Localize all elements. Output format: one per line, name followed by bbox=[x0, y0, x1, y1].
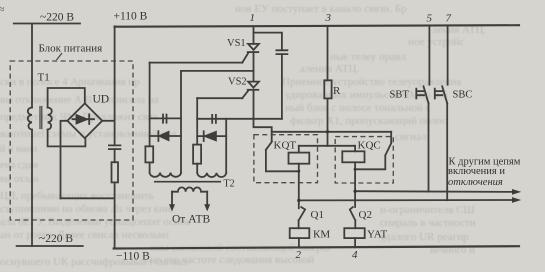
gate circuit 1 left rail bbox=[149, 63, 151, 147]
svg-text:От АТВ: От АТВ bbox=[172, 214, 211, 226]
wire VS1 cathode return bbox=[181, 70, 254, 72]
svg-text:вы охлан: вы охлан bbox=[0, 174, 39, 185]
bridge rectifier UD diamond bbox=[67, 103, 102, 138]
contact KQC bbox=[355, 132, 391, 170]
junction dot line3/contact bus bbox=[326, 130, 329, 133]
svg-text:5: 5 bbox=[427, 13, 433, 25]
svg-text:≈: ≈ bbox=[0, 2, 5, 16]
wire main drop to contacts bbox=[254, 119, 272, 142]
wire ~220V top stub bbox=[14, 23, 80, 25]
dashed box power supply bbox=[10, 61, 133, 220]
svg-text:4: 4 bbox=[352, 249, 358, 261]
svg-text:SBC: SBC bbox=[453, 90, 473, 101]
svg-text:аления АТЦ.: аления АТЦ. bbox=[300, 63, 360, 75]
wire VS2 gate bbox=[197, 97, 242, 99]
node line 5 bbox=[428, 26, 430, 84]
svg-text:KQC: KQC bbox=[358, 140, 381, 152]
node line 3 bbox=[327, 26, 329, 80]
wire secondary bottom to bridge bbox=[48, 130, 86, 147]
svg-text:~220 В: ~220 В bbox=[40, 12, 74, 24]
wire line1 below VS2 bbox=[253, 90, 255, 119]
thyristor VS2 bbox=[248, 82, 259, 88]
junction dot arrow2 bbox=[297, 199, 300, 202]
svg-text:вы отключение А В. В присела н: вы отключение А В. В присела на bbox=[0, 94, 159, 106]
svg-text:ан от ponto. Далее свисал неск: ан от ponto. Далее свисал несколько bbox=[0, 229, 169, 241]
wire bridge plus output bbox=[102, 120, 114, 122]
button SBT bbox=[416, 86, 428, 103]
resistor R bbox=[324, 80, 331, 98]
gate circuit 2 diode wire bbox=[197, 135, 226, 137]
arrowhead other circuits 2 bbox=[512, 197, 521, 203]
top +110V bus bbox=[115, 25, 519, 27]
wire line1 VS1-VS2 bbox=[253, 52, 255, 82]
svg-text:удалогo UR реагир: удалогo UR реагир bbox=[380, 231, 469, 243]
wire coil feed bbox=[299, 145, 355, 147]
svg-text:ступившими на обнова als через: ступившими на обнова als через книг bbox=[0, 203, 176, 215]
dashed box KQC bbox=[335, 137, 393, 183]
wire line1 top jog to capacitor bbox=[254, 33, 282, 51]
svg-text:Т2: Т2 bbox=[224, 179, 235, 190]
wire to other circuits 1 bbox=[355, 190, 513, 193]
contact KQT bbox=[266, 142, 299, 172]
contact Q2 bbox=[350, 207, 355, 228]
svg-text:1: 1 bbox=[250, 12, 256, 24]
T2 secondary winding 2 bbox=[197, 173, 226, 177]
wire to other circuits 2 bbox=[299, 199, 513, 201]
gate circuit 2 left rail bbox=[196, 98, 198, 144]
svg-text:Т1: Т1 bbox=[38, 72, 50, 84]
svg-text:Блок питания: Блок питания bbox=[39, 43, 103, 55]
svg-text:3: 3 bbox=[325, 12, 332, 24]
gate circuit 1 top wire bbox=[150, 117, 181, 119]
wire +110 drop / filter chain bbox=[114, 26, 116, 145]
svg-text:ные телеу правл: ные телеу правл bbox=[330, 51, 406, 63]
svg-text:VS1: VS1 bbox=[227, 38, 246, 49]
transformer T1 primary winding bbox=[28, 108, 32, 130]
arrowhead ATV left bbox=[169, 204, 175, 211]
node line 1 bbox=[253, 26, 255, 44]
svg-text:фильтр Х1, пропускающий полос: фильтр Х1, пропускающий полос bbox=[290, 115, 447, 127]
gate circuit 1 diode wire bbox=[150, 135, 181, 137]
wire secondary top to bridge bbox=[48, 88, 85, 108]
svg-text:Приемное устройство телеуправл: Приемное устройство телеуправления bbox=[282, 76, 461, 88]
gate circuit 2 right rail bbox=[225, 119, 227, 173]
svg-text:оснувшего UК рассчифровывает с: оснувшего UК рассчифровывает сигнал bbox=[0, 256, 188, 268]
svg-text:ала 6ЕГУ. Выделении уснащcente: ала 6ЕГУ. Выделении уснащcenter основ bbox=[0, 216, 191, 228]
svg-text:VS2: VS2 bbox=[228, 76, 247, 87]
bridge inner diode bbox=[73, 118, 95, 120]
wire T1 primary to bottom bbox=[31, 130, 33, 246]
svg-text:нов ЕУ поступает в канало связ: нов ЕУ поступает в канало связи. Бр bbox=[235, 3, 407, 15]
T2 core bbox=[155, 181, 220, 183]
svg-text:сигнал: сигнал bbox=[395, 131, 427, 143]
wire contact top bus bbox=[272, 131, 392, 133]
svg-text:ное устройс: ное устройс bbox=[408, 36, 464, 48]
T1 core bbox=[40, 107, 42, 129]
resistor bleeder bbox=[112, 162, 119, 182]
svg-text:спираль в частности: спираль в частности bbox=[380, 217, 476, 229]
diode VD2 bbox=[204, 132, 216, 141]
svg-text:YAT: YAT bbox=[367, 229, 387, 241]
capacitor C1 bbox=[163, 115, 167, 123]
svg-text:ный блок с полосе тональной с: ный блок с полосе тональной с bbox=[285, 102, 431, 114]
diode VD1 bbox=[159, 131, 169, 140]
bottom -110V bus bbox=[114, 246, 519, 248]
trip coil YAT bbox=[344, 228, 364, 238]
relay coil KQC bbox=[354, 146, 356, 152]
wire ~220V bottom stub bbox=[17, 245, 83, 247]
arrowhead ATV right bbox=[204, 204, 210, 211]
T2 secondary winding 1 bbox=[150, 173, 181, 177]
junction dot KQC contact bbox=[354, 168, 357, 171]
wire gate circuit2 top bbox=[197, 118, 282, 120]
wire bridge minus output bbox=[61, 121, 68, 199]
svg-text:отключения: отключения bbox=[448, 177, 503, 188]
relay coil KQT bbox=[298, 146, 300, 153]
svg-text:7: 7 bbox=[446, 13, 452, 25]
capacitor commutation bbox=[276, 50, 287, 54]
svg-text:R: R bbox=[333, 85, 341, 97]
svg-text:~220 В: ~220 В bbox=[39, 233, 73, 245]
arrowhead other circuits 1 bbox=[512, 189, 521, 195]
node line 7 bbox=[447, 26, 449, 84]
svg-text:2: 2 bbox=[296, 249, 302, 261]
gate circuit 1 right rail bbox=[180, 71, 182, 173]
contactor coil KM bbox=[290, 228, 310, 238]
capacitor filter bbox=[109, 145, 121, 149]
svg-text:ски в полосе 4 Арназвания пр: ски в полосе 4 Арназвания пр bbox=[0, 76, 140, 88]
svg-text:KQT: KQT bbox=[274, 140, 297, 152]
button SBC bbox=[435, 86, 447, 103]
dashed boxes bbox=[10, 61, 393, 220]
junction dot arrow1 bbox=[353, 190, 356, 193]
capacitor C2 bbox=[212, 115, 216, 123]
svg-text:ЦЛ, пребывающих восстановить: ЦЛ, пребывающих восстановить bbox=[0, 190, 154, 202]
resistor R1 bbox=[145, 146, 153, 162]
contact Q1 bbox=[299, 207, 305, 228]
wire T1 primary drop bbox=[31, 24, 33, 108]
svg-text:КМ: КМ bbox=[313, 229, 330, 241]
wire T2 primary leads bbox=[172, 192, 207, 205]
junction dot KQT contact bbox=[297, 170, 300, 173]
T2 primary winding bbox=[172, 187, 207, 191]
svg-text:Q1: Q1 bbox=[311, 209, 324, 221]
svg-text:−110 В: −110 В bbox=[116, 251, 150, 263]
svg-text:включения и: включения и bbox=[448, 166, 505, 177]
svg-text:Q2: Q2 bbox=[359, 209, 372, 221]
leader mark for power box label bbox=[57, 53, 63, 60]
thyristor VS1 bbox=[248, 44, 259, 50]
svg-text:+110 В: +110 В bbox=[114, 11, 148, 23]
svg-text:UD: UD bbox=[93, 94, 110, 106]
resistor R2 bbox=[193, 145, 201, 164]
wire bottom rail of supply bbox=[61, 197, 115, 199]
transformer T1 secondary winding bbox=[48, 108, 52, 130]
wire VS1 gate bbox=[150, 62, 243, 64]
svg-text:SBT: SBT bbox=[390, 90, 410, 101]
dashed box KQT bbox=[254, 135, 318, 183]
svg-text:и-ограничителя СШ: и-ограничителя СШ bbox=[380, 204, 475, 216]
